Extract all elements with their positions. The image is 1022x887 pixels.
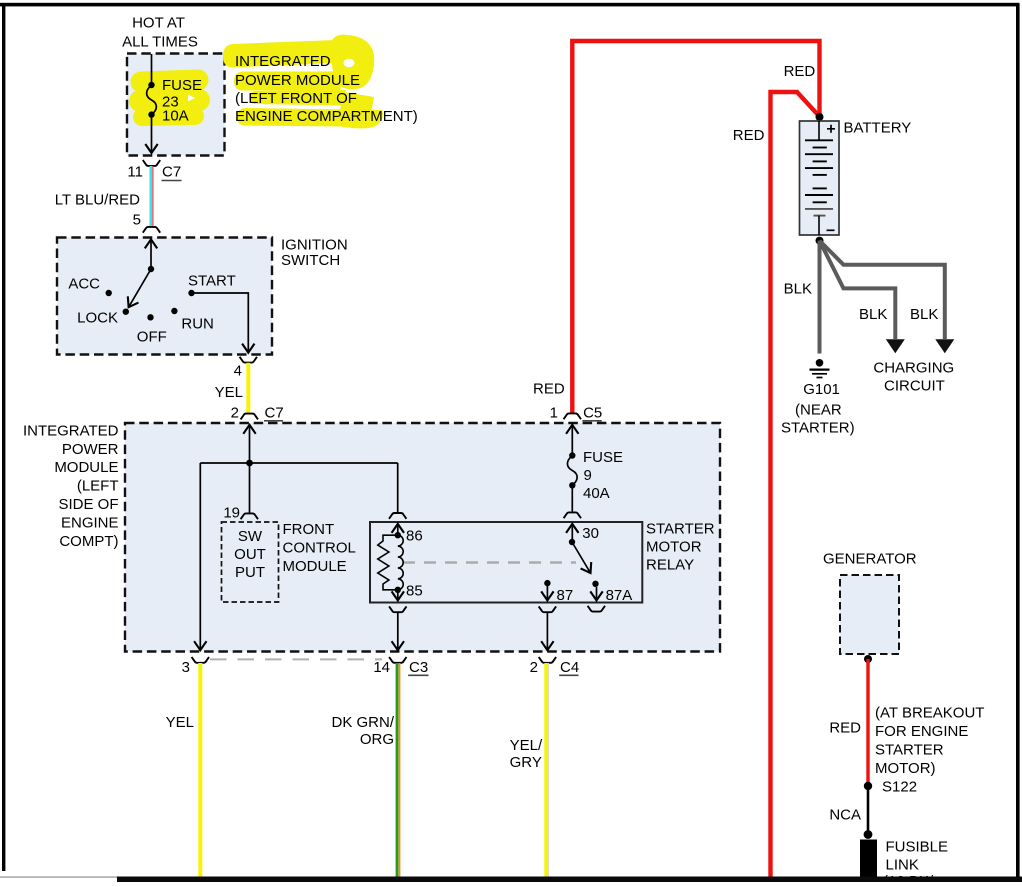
svg-text:YEL/: YEL/: [510, 737, 543, 754]
svg-text:MOTOR: MOTOR: [646, 539, 702, 556]
svg-text:14: 14: [373, 659, 390, 676]
wire 87 to pin 2 C4: [546, 612, 548, 650]
node LOCK: [77, 309, 129, 327]
wire BLK to charging circuit left: [820, 241, 896, 339]
svg-text:FUSE: FUSE: [162, 77, 202, 94]
svg-text:FUSE: FUSE: [583, 449, 623, 466]
starter motor relay box: [370, 522, 642, 603]
svg-text:OUT: OUT: [234, 546, 266, 563]
svg-text:COMPT): COMPT): [59, 533, 118, 550]
contact 87 exit arrow: [546, 583, 548, 600]
svg-text:G101: G101: [803, 381, 840, 398]
svg-text:START: START: [188, 273, 236, 290]
svg-text:C5: C5: [583, 405, 602, 422]
wire YEL (ignition to IPM): [246, 363, 250, 414]
svg-text:ENGINE COMPARTMENT): ENGINE COMPARTMENT): [235, 108, 418, 125]
wire pin2 entry arrow into IPM: [249, 425, 251, 463]
page border left: [2, 4, 5, 871]
svg-text:BLK: BLK: [859, 306, 887, 323]
svg-text:STARTER: STARTER: [646, 521, 715, 538]
svg-text:YEL: YEL: [215, 384, 243, 401]
svg-text:C7: C7: [162, 164, 181, 181]
svg-text:OFF: OFF: [137, 329, 167, 346]
svg-text:STARTER): STARTER): [781, 420, 855, 437]
svg-text:19: 19: [223, 505, 240, 522]
svg-text:5: 5: [133, 212, 141, 229]
relay contact 87: [544, 580, 573, 604]
label CHARGING CIRCUIT: [873, 359, 954, 394]
relay coil pin 85: [395, 583, 423, 600]
svg-text:LOCK: LOCK: [77, 310, 118, 327]
label YEL/GRY: [510, 737, 543, 771]
IPM main box (left side of engine compt): [125, 423, 720, 652]
svg-text:C3: C3: [409, 659, 428, 676]
relay coil entry arrow: [397, 524, 399, 535]
wire YEL/GRY: [546, 663, 548, 877]
label DK GRN/ORG: [331, 714, 394, 748]
page edge line bottom-left: [0, 876, 118, 878]
node START: [188, 273, 236, 297]
svg-text:(AT BREAKOUT: (AT BREAKOUT: [875, 705, 984, 722]
svg-text:S122: S122: [882, 779, 917, 796]
pin 19 connector: [223, 505, 258, 522]
contact 87A exit arrow: [596, 587, 598, 600]
svg-text:ENGINE: ENGINE: [61, 515, 119, 532]
svg-text:(LEFT FRONT OF: (LEFT FRONT OF: [235, 90, 357, 107]
arrow to charging circuit left: [886, 339, 905, 353]
relay coil exit arrow: [397, 590, 399, 601]
ignition switch wiper arrow up: [150, 239, 152, 269]
svg-text:RED: RED: [829, 720, 861, 737]
generator box: [840, 575, 899, 654]
battery positive node: [816, 113, 824, 121]
svg-text:C4: C4: [560, 659, 579, 676]
ignition pivot dot: [148, 266, 154, 272]
svg-text:LINK: LINK: [886, 856, 919, 873]
wire BLK to ground: [818, 241, 822, 354]
wire LT BLU/RED: [151, 166, 153, 227]
fuse 9 entry arrow into IPM: [571, 425, 573, 456]
relay coil resistor zigzag: [378, 535, 398, 590]
svg-text:SIDE OF: SIDE OF: [58, 496, 118, 513]
svg-text:RED: RED: [533, 381, 565, 398]
label FRONT CONTROL MODULE: [283, 521, 356, 575]
wire NCA: [867, 786, 870, 835]
svg-text:SWITCH: SWITCH: [281, 252, 340, 269]
svg-text:GRY: GRY: [510, 754, 542, 771]
fuse F23 value labels: [162, 77, 202, 125]
wire RED battery feed down to C5: [572, 41, 819, 413]
svg-text:85: 85: [406, 583, 423, 600]
svg-text:11: 11: [127, 164, 143, 181]
svg-text:INTEGRATED: INTEGRATED: [235, 53, 331, 70]
svg-text:FOR ENGINE: FOR ENGINE: [875, 723, 968, 740]
svg-text:RELAY: RELAY: [646, 557, 694, 574]
fuse 9 symbol: [567, 456, 577, 513]
splice node S122: [864, 779, 917, 796]
battery B1: [800, 121, 840, 235]
svg-text:RED: RED: [733, 127, 765, 144]
relay internal dashed link: [403, 561, 576, 564]
svg-text:GENERATOR: GENERATOR: [823, 551, 917, 568]
wire RED generator branch: [771, 92, 820, 877]
connector below 87A (unused): [588, 606, 605, 612]
svg-text:SW: SW: [238, 528, 263, 545]
connector below coil: [389, 606, 406, 612]
svg-text:RUN: RUN: [181, 316, 214, 333]
wire BLK to charging circuit right: [820, 241, 945, 339]
pin 14 connector C3: [373, 657, 428, 676]
svg-text:FRONT: FRONT: [283, 521, 335, 538]
wiper arrow to LOCK: [129, 269, 151, 307]
svg-text:YEL: YEL: [166, 714, 194, 731]
relay coil pin 86: [395, 528, 423, 545]
wire junction to SW OUT PUT: [249, 463, 251, 513]
relay switch blade 30 to 87A: [572, 542, 591, 573]
svg-text:BLK: BLK: [910, 306, 938, 323]
wire START to pin 4: [192, 293, 249, 353]
relay contact 87A: [592, 581, 632, 604]
label STARTER MOTOR RELAY: [646, 521, 715, 574]
fuse 9 labels: [583, 449, 623, 502]
label G101 (NEAR STARTER): [781, 381, 855, 437]
svg-text:ALL TIMES: ALL TIMES: [122, 34, 198, 51]
svg-text:POWER MODULE: POWER MODULE: [235, 72, 360, 89]
svg-text:30: 30: [582, 525, 599, 542]
svg-text:(NEAR: (NEAR: [795, 402, 842, 419]
svg-text:CONTROL: CONTROL: [283, 540, 356, 557]
arrow to charging circuit right: [935, 339, 954, 353]
svg-text:1: 1: [550, 405, 558, 422]
wire RED generator to S122: [866, 659, 869, 786]
svg-text:FUSIBLE: FUSIBLE: [886, 839, 949, 856]
text HOT AT ALL TIMES: [122, 15, 198, 51]
label FUSIBLE LINK: [883, 839, 948, 887]
svg-text:STARTER: STARTER: [875, 742, 944, 759]
pin 5 connector: [133, 212, 161, 233]
fuse box F23 (IPM front): [127, 54, 225, 156]
svg-text:87: 87: [557, 587, 574, 604]
relay contact 30: [569, 525, 599, 545]
svg-text:C7: C7: [265, 405, 284, 422]
wire YEL pin 3: [198, 663, 202, 877]
svg-text:BATTERY: BATTERY: [844, 120, 912, 137]
svg-text:NCA: NCA: [829, 807, 861, 824]
generator output node: [864, 655, 872, 663]
fusible link body: [860, 840, 877, 880]
ground G101: [810, 359, 830, 378]
pin 2 connector C4: [530, 657, 580, 676]
label INTEGRATED POWER MODULE (LEFT FRONT OF ENGINE COMPARTMENT): [235, 53, 418, 125]
svg-text:ACC: ACC: [68, 276, 100, 293]
svg-text:40A: 40A: [583, 485, 610, 502]
pin 4 connector: [234, 357, 257, 380]
svg-text:2: 2: [530, 659, 538, 676]
svg-text:10A: 10A: [162, 108, 189, 125]
svg-text:86: 86: [406, 528, 423, 545]
svg-text:2: 2: [231, 405, 239, 422]
node RUN: [171, 308, 214, 333]
svg-text:ORG: ORG: [360, 731, 394, 748]
svg-text:CIRCUIT: CIRCUIT: [884, 377, 945, 394]
node ACC: [68, 276, 112, 297]
fuse F23 symbol: [147, 54, 157, 153]
junction node: [864, 830, 873, 839]
node OFF: [137, 314, 167, 345]
highlight marker over fuse 23: [140, 80, 199, 117]
pin 2 connector C7: [231, 405, 284, 422]
pin 3 connector: [182, 657, 209, 676]
junction node: [246, 460, 253, 467]
label (AT BREAKOUT FOR ENGINE STARTER MOTOR): [875, 705, 984, 778]
svg-text:MODULE: MODULE: [283, 558, 347, 575]
battery negative node: [816, 237, 824, 245]
relay coil winding arcs: [398, 535, 403, 590]
svg-text:INTEGRATED: INTEGRATED: [23, 423, 119, 440]
label IGNITION SWITCH: [281, 237, 348, 269]
svg-text:4: 4: [234, 363, 242, 380]
wire left branch to pin 3: [199, 463, 201, 650]
page border bottom bar: [117, 877, 1022, 883]
page border right: [1016, 4, 1020, 882]
SW OUT PUT box: [222, 522, 279, 602]
page border top: [0, 3, 1020, 7]
svg-text:POWER: POWER: [62, 441, 119, 458]
svg-text:DK GRN/: DK GRN/: [331, 714, 394, 731]
highlight marker over IPM label: [223, 35, 383, 129]
svg-text:CHARGING: CHARGING: [873, 359, 954, 376]
svg-text:LT BLU/RED: LT BLU/RED: [55, 192, 140, 209]
pin 1 connector C5: [550, 405, 603, 422]
connector C3 groove: [210, 658, 382, 660]
svg-text:PUT: PUT: [235, 564, 265, 581]
connector below 87: [539, 606, 556, 612]
svg-text:9: 9: [584, 467, 592, 484]
wire horizontal branch: [200, 462, 397, 464]
relay pin 30 entry arrow: [571, 524, 573, 542]
wire DK GRN/ORG: [397, 663, 400, 877]
wire coil to pin 14: [397, 612, 399, 650]
pin 11 connector C7: [127, 160, 181, 180]
ignition switch box: [57, 238, 272, 355]
svg-text:(LEFT: (LEFT: [77, 478, 119, 495]
svg-text:RED: RED: [784, 63, 816, 80]
connector above relay pin 30: [564, 512, 581, 518]
wire right branch to relay coil: [397, 463, 399, 513]
svg-text:HOT AT: HOT AT: [132, 15, 185, 32]
svg-text:3: 3: [182, 659, 190, 676]
svg-text:87A: 87A: [606, 587, 633, 604]
white notch in highlight: [188, 95, 195, 102]
svg-text:BLK: BLK: [784, 281, 812, 298]
connector above relay coil: [389, 513, 406, 519]
svg-text:MODULE: MODULE: [54, 459, 118, 476]
svg-text:MOTOR): MOTOR): [875, 760, 936, 777]
label INTEGRATED POWER MODULE (LEFT SIDE OF ENGINE COMPT): [23, 423, 119, 551]
